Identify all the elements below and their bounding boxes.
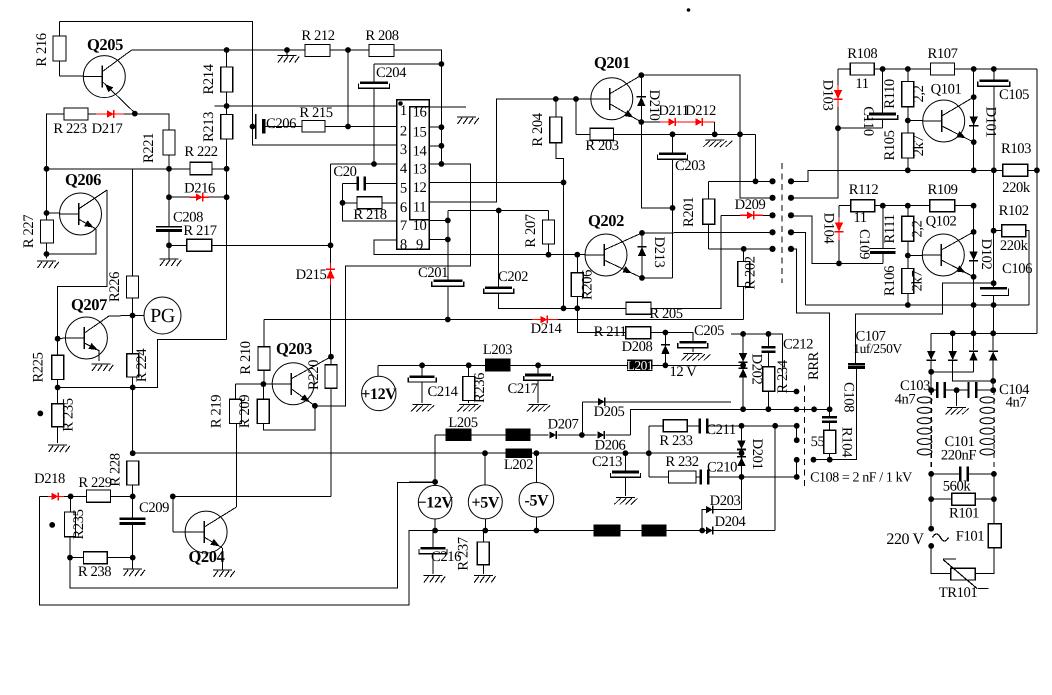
resistor R103 <box>1003 164 1028 176</box>
wire Q101 collector column <box>973 69 975 97</box>
wire pin 4 row <box>331 163 397 165</box>
label Q102 <box>926 214 957 230</box>
label R217 <box>183 223 216 239</box>
IC pin 3 number <box>400 142 407 158</box>
ground Q207 emitter <box>92 351 114 371</box>
svg-text:C108 = 2 nF / 1 kV: C108 = 2 nF / 1 kV <box>810 471 912 486</box>
wire R213 column jog to R224 <box>133 340 227 388</box>
connector pair seg B <box>796 460 798 477</box>
label C202 <box>498 269 528 285</box>
svg-text:R105: R105 <box>882 130 898 160</box>
label R105 <box>882 130 898 160</box>
node R225 bottom <box>55 385 61 391</box>
label C20 <box>333 164 356 180</box>
node D202 mid 12V <box>740 362 746 368</box>
label R207 <box>523 214 539 247</box>
label R211 <box>594 324 627 340</box>
resistor R219 <box>230 384 242 423</box>
node C104 right <box>990 387 996 393</box>
wire top rail y=69 <box>874 68 1037 70</box>
capacitor C108 <box>822 410 837 430</box>
wire row y=387.4 <box>58 386 133 388</box>
node row453 left end <box>130 450 136 456</box>
node C103-C104 ground <box>954 387 960 393</box>
diode D214 <box>532 316 558 324</box>
svg-text:C108: C108 <box>841 382 857 412</box>
IC pin 13 number <box>413 161 427 177</box>
resistor R227 <box>41 213 54 259</box>
node R104 bottom <box>827 457 833 463</box>
svg-text:R107: R107 <box>927 46 957 62</box>
svg-text:D214: D214 <box>531 321 563 337</box>
node C204 bottom pin4 <box>371 161 377 167</box>
resistor R234 <box>763 367 775 409</box>
label R215 <box>299 105 332 121</box>
resistor R208 <box>369 45 394 57</box>
resistor R236 <box>463 365 475 403</box>
wire R221-C208 column <box>168 169 170 227</box>
node D215 top <box>328 242 334 248</box>
node bus -12V <box>432 528 438 534</box>
label R206 <box>580 270 596 300</box>
supply circle -5V <box>519 453 554 530</box>
wire main bus <box>264 319 744 321</box>
node PG junction <box>130 313 136 319</box>
rectifier diode 3 <box>969 333 978 372</box>
svg-text:R101: R101 <box>949 506 979 522</box>
label TR101 <box>939 585 978 601</box>
label R102 <box>999 203 1029 219</box>
node C204 column top <box>439 61 445 67</box>
svg-text:220k: 220k <box>1002 180 1031 196</box>
node R102 left <box>991 228 997 234</box>
label R112 <box>849 182 879 198</box>
label R103 value <box>1002 180 1031 196</box>
node C209 bottom <box>130 555 136 561</box>
resistor R226 <box>127 276 139 316</box>
svg-text:Q203: Q203 <box>276 339 312 358</box>
label Q205 <box>87 35 123 54</box>
resistor R202 <box>738 249 750 320</box>
capacitor C203 <box>658 134 688 208</box>
coil right windings <box>980 397 995 455</box>
wire C105-C106 column <box>993 170 995 283</box>
node rail Q102emit <box>971 302 977 308</box>
node bus +5V <box>482 528 488 534</box>
node Q101 base <box>905 118 911 124</box>
wire R102 right drop <box>1026 231 1029 305</box>
wire R204 column to R205 row <box>563 182 565 308</box>
node -12V top <box>432 479 438 485</box>
diode D208 <box>661 333 670 366</box>
resistor R214 <box>221 50 233 115</box>
wire Q204 collector to R219 <box>236 424 238 508</box>
node D212 ground <box>712 131 718 137</box>
IC pin 4 number <box>400 161 408 177</box>
svg-text:Q202: Q202 <box>588 211 624 230</box>
label D209 <box>735 197 766 213</box>
svg-text:R 235: R 235 <box>61 398 77 431</box>
ground below R227 <box>37 261 59 268</box>
svg-text:12: 12 <box>413 180 427 196</box>
label R103 <box>1001 141 1031 157</box>
node D201 bottom <box>739 474 745 480</box>
node row169-left <box>44 166 50 172</box>
label C211 <box>706 422 736 438</box>
wire Q206 collector to Q207 base <box>58 190 107 339</box>
wire D205 row <box>582 402 731 435</box>
wire to TR101 <box>931 546 950 574</box>
svg-text:R109: R109 <box>927 182 957 198</box>
wire left mains column <box>930 474 932 529</box>
wire C211 to D201 <box>709 425 797 427</box>
label C101 value <box>941 448 977 464</box>
svg-text:C214: C214 <box>427 384 458 400</box>
wire secondary 2 to D103 node <box>791 128 838 198</box>
node Q201 emitter <box>638 119 644 125</box>
resistor R111 <box>902 206 914 256</box>
node Q201 base-R204 <box>553 96 559 102</box>
label R222 <box>184 144 217 160</box>
node pin9 <box>445 237 451 243</box>
wire Q205 emitter / D217 row <box>88 114 169 130</box>
label C109 <box>856 229 872 259</box>
resistor R207 <box>543 211 555 255</box>
label Q201 <box>594 53 630 72</box>
transformer right terminals <box>788 178 794 252</box>
wire +12V rail <box>378 364 743 366</box>
capacitor C20 <box>357 177 366 191</box>
label R223 <box>53 121 86 137</box>
capacitor C208 <box>156 227 182 246</box>
label L203 <box>483 342 512 358</box>
label D215 <box>296 267 327 283</box>
node D206row-conn2 <box>811 406 817 412</box>
node R207 bottom <box>546 252 552 258</box>
resistor R215 <box>302 121 397 133</box>
wire R209 bottom to emitter <box>263 406 315 430</box>
node C106 top <box>991 280 997 286</box>
svg-text:F101: F101 <box>956 529 985 545</box>
wire rail to diode4 top <box>992 305 994 333</box>
label F101 <box>956 529 985 545</box>
ground below C209 <box>123 558 145 576</box>
resistor R102 <box>994 225 1026 237</box>
wire secondary 3 to C109 row <box>791 216 883 264</box>
transistor Q102 <box>922 232 973 277</box>
svg-text:TR101: TR101 <box>939 585 978 601</box>
wire Q203 base row <box>235 383 272 385</box>
IC pin 10 number <box>413 218 427 234</box>
label 55 <box>811 434 825 450</box>
label C206 <box>266 116 296 132</box>
node conn dot3 <box>794 423 800 429</box>
svg-text:R 223: R 223 <box>53 121 86 137</box>
capacitor C206 <box>253 114 303 139</box>
svg-text:R226: R226 <box>107 272 123 302</box>
resistor R206 <box>571 255 583 309</box>
wire C203 node to Q202 emitter <box>672 208 674 278</box>
node R227 bottom <box>44 251 50 257</box>
wire bias row y=169 <box>47 168 191 170</box>
wire Q203 emitter to pin13 column <box>315 405 331 407</box>
svg-text:D215: D215 <box>296 267 327 283</box>
wire secondary 4 drop <box>791 232 806 305</box>
diode pair D201 <box>737 426 746 477</box>
wire Q101 emitter column <box>973 142 975 170</box>
label R106 value <box>910 271 926 292</box>
svg-text:+12V: +12V <box>361 386 397 403</box>
svg-text:R 234: R 234 <box>775 359 791 393</box>
node R238 left <box>67 555 73 561</box>
label R205 <box>649 306 682 322</box>
label C205 <box>694 323 724 339</box>
node D103 bottom <box>835 125 841 131</box>
label D204 <box>715 514 747 530</box>
wire pin 10 stub <box>429 219 448 221</box>
capacitor C104 <box>957 382 994 398</box>
label L205 <box>448 415 477 431</box>
resistor R233 <box>649 420 699 432</box>
node Q207 base <box>55 336 61 342</box>
capacitor C110 <box>868 69 898 128</box>
label R212 <box>301 28 334 44</box>
resistor R232 <box>649 471 700 483</box>
stray dot top <box>687 8 691 12</box>
node D204col top <box>772 423 778 429</box>
wire oscillator row y=210.5 <box>448 210 549 212</box>
node row453-R233col <box>646 450 652 456</box>
coil right axis <box>993 390 995 474</box>
wire Q102 collector column <box>973 206 975 232</box>
node R110 top <box>905 66 911 72</box>
resistor R105 <box>902 121 914 171</box>
wire D201 mid row <box>649 452 742 454</box>
supply circle -12V <box>418 482 454 531</box>
capacitor C211 <box>699 418 709 433</box>
svg-text:C205: C205 <box>694 323 724 339</box>
connector pair seg A <box>796 426 798 440</box>
wire R203 column <box>575 99 577 134</box>
ground below C217 <box>526 405 550 412</box>
node C109 top <box>880 203 886 209</box>
svg-text:R 232: R 232 <box>665 454 698 470</box>
svg-text:2,2: 2,2 <box>910 220 926 237</box>
wire top rail from R216 to C206 column and IC pin 3 <box>60 22 397 146</box>
ground below R236 <box>457 405 481 412</box>
label Q203 <box>276 339 312 358</box>
svg-text:R 204: R 204 <box>530 112 546 146</box>
label C104 value <box>1006 395 1027 411</box>
wire row y=205.5 <box>875 205 974 207</box>
capacitor C202 <box>484 211 564 309</box>
wire pin 13 route <box>331 164 471 406</box>
node C110 top <box>880 66 886 72</box>
wire Q202 emitter stub <box>642 277 673 279</box>
node emitter-rail <box>971 167 977 173</box>
svg-text:R 233: R 233 <box>659 433 692 449</box>
wire Q204 base <box>173 496 185 532</box>
svg-text:D102: D102 <box>978 239 994 270</box>
node collector-ground <box>284 47 290 53</box>
node Q201 collector <box>638 72 644 78</box>
svg-text:L202: L202 <box>504 457 533 473</box>
resistor R218 <box>343 197 397 209</box>
node collector-R214 <box>224 47 230 53</box>
node R205-R206 <box>574 305 580 311</box>
wire pin 14 stub <box>429 145 441 147</box>
svg-text:C109: C109 <box>856 229 872 259</box>
node R101 left <box>928 496 934 502</box>
label D101 <box>983 107 999 138</box>
label C108 note <box>810 471 912 486</box>
svg-text:16: 16 <box>413 105 427 121</box>
svg-text:D206: D206 <box>595 438 626 454</box>
label D213 <box>651 237 667 268</box>
svg-text:4n7: 4n7 <box>895 392 916 408</box>
inductor L203 <box>485 358 511 371</box>
wire rail to diode3 top <box>973 305 975 333</box>
node D201 mid <box>739 450 745 456</box>
diodes D211 D212 row <box>641 118 714 134</box>
coil left axis <box>930 390 932 474</box>
capacitor C107 <box>848 363 865 369</box>
node row169-R221 <box>166 166 172 172</box>
capacitor C105 <box>978 69 1010 170</box>
inductor L201 <box>627 358 654 373</box>
label R214 <box>201 63 217 94</box>
supply circle +12V <box>361 365 397 410</box>
ground below R237 <box>474 576 496 583</box>
label C106 <box>1002 261 1032 277</box>
label R224 <box>134 348 150 382</box>
svg-text:C217: C217 <box>507 381 537 397</box>
transistor Q206 <box>60 190 108 235</box>
resistor R212 <box>305 45 330 57</box>
resistor R235 lower <box>65 496 76 557</box>
label R226 <box>107 272 123 302</box>
node R228-R229 <box>130 494 136 500</box>
label R228 <box>108 453 124 486</box>
svg-text:−12V: −12V <box>418 495 454 512</box>
stray dot left <box>37 411 43 417</box>
transformer left terminals <box>769 178 775 252</box>
wire Q205 collector rail y=50 <box>131 50 441 64</box>
wire TR101 to F101 <box>975 548 993 574</box>
label D206 <box>595 438 626 454</box>
node R224 bottom <box>130 385 136 391</box>
svg-text:R236: R236 <box>472 373 488 403</box>
resistor R104 <box>824 430 836 460</box>
svg-text:L205: L205 <box>448 415 477 431</box>
label R202 <box>743 256 759 289</box>
diode D217 <box>96 110 124 118</box>
node R215-R212 column <box>345 124 351 130</box>
wire R208-pins column <box>440 64 442 164</box>
svg-text:4: 4 <box>400 161 408 177</box>
svg-text:C20: C20 <box>333 164 356 180</box>
node rect d2-d4 <box>990 378 996 384</box>
wire D206 row <box>582 409 830 435</box>
ground below C208 <box>160 245 182 266</box>
svg-text:13: 13 <box>413 161 427 177</box>
transformer primary wire 5 <box>709 248 773 250</box>
label R105 value <box>911 136 927 157</box>
node Q101 emitter <box>971 139 977 145</box>
ground below C205 <box>681 354 711 361</box>
diode D218 row <box>40 492 71 500</box>
inductor L205a <box>445 429 471 442</box>
label R112 value 11 <box>853 210 866 226</box>
node C203 top <box>670 131 676 137</box>
ground at pin16 <box>457 117 479 124</box>
svg-text:+5V: +5V <box>472 494 500 511</box>
node C108 top <box>827 406 833 412</box>
svg-text:C206: C206 <box>266 116 296 132</box>
label R109 <box>927 182 957 198</box>
svg-text:L203: L203 <box>483 342 512 358</box>
label C208 <box>173 210 203 226</box>
label R234 <box>775 359 791 393</box>
svg-text:R 207: R 207 <box>523 214 539 247</box>
wire Q201 collector <box>641 75 740 134</box>
svg-text:15: 15 <box>413 125 427 141</box>
IC pin 16 number <box>413 105 427 121</box>
node D203 tap <box>699 528 705 534</box>
svg-text:R112: R112 <box>849 182 879 198</box>
node R205-R204col <box>561 305 567 311</box>
wire Q206 base <box>47 169 60 213</box>
label R209 <box>237 395 253 428</box>
label R111 value <box>910 220 926 237</box>
resistor R106 <box>902 256 914 306</box>
wire C106top to C107 <box>855 283 993 363</box>
svg-text:R 224: R 224 <box>134 348 150 382</box>
stray dot left lower <box>49 522 55 528</box>
svg-text:Q205: Q205 <box>87 35 123 54</box>
resistor R110 <box>902 69 914 121</box>
IC pin 8 number <box>400 237 407 253</box>
label C210 <box>707 460 737 476</box>
wire pin 1 row <box>227 105 397 107</box>
inductor bus choke 2 <box>642 524 667 536</box>
svg-text:D208: D208 <box>622 339 653 355</box>
svg-text:8: 8 <box>400 237 407 253</box>
wire D202 top row <box>731 334 796 392</box>
label R237 <box>456 537 472 570</box>
svg-text:R 237: R 237 <box>456 537 472 570</box>
wire C205 lead <box>665 333 692 342</box>
svg-text:R106: R106 <box>882 266 898 296</box>
label R104 <box>839 427 855 458</box>
svg-text:C110: C110 <box>860 106 876 136</box>
svg-text:7: 7 <box>400 218 407 234</box>
node D218-R229 <box>68 494 74 500</box>
svg-text:R 202: R 202 <box>743 256 759 289</box>
resistor R201 <box>703 181 715 249</box>
wire pin 16 ground <box>429 106 466 108</box>
node -5V top <box>534 450 540 456</box>
node R101 right <box>991 496 997 502</box>
svg-text:RRR: RRR <box>806 351 822 380</box>
resistor R237 <box>477 531 489 575</box>
node rail-Q101col <box>971 66 977 72</box>
node rect d1 bottom <box>928 369 934 375</box>
node C203 bottom <box>670 205 676 211</box>
ground between C103 C104 <box>945 390 969 414</box>
svg-text:C204: C204 <box>376 65 407 81</box>
svg-text:R 205: R 205 <box>649 306 682 322</box>
